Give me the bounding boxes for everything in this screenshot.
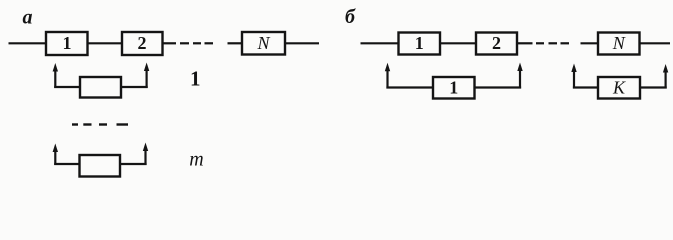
block 1 (series chain a) [46, 32, 88, 55]
wire: dashes to block N (b) [581, 42, 600, 44]
block: reserve unit row 1 (a, unlabeled) [80, 77, 121, 98]
arrow: reserve group 1 left (a) [53, 63, 58, 88]
wire: dashes to block N (a) [228, 42, 244, 44]
svg-text:N: N [612, 33, 626, 53]
wire: between block 1 and block 2 (a) [88, 42, 123, 44]
block N (series chain a) [242, 32, 285, 55]
wire: dashed row separator (a) [72, 123, 128, 125]
label: row index m (a) [189, 149, 203, 171]
arrow: reserve of group 1 left (b) [385, 63, 390, 89]
wire: block 2 to dashes (a) [163, 42, 177, 44]
svg-text:1: 1 [190, 67, 201, 91]
svg-text:N: N [256, 33, 270, 53]
svg-text:б: б [345, 6, 356, 28]
block N (series chain b) [598, 33, 640, 55]
block 1 (series chain b) [399, 33, 441, 55]
wire: between block 1 and block 2 (b) [440, 42, 477, 44]
wire: block 2 to dashes (b) [517, 42, 533, 44]
wire: right diagram input [361, 42, 400, 44]
wire: stub left of reserve box K (b) [573, 86, 599, 88]
label b (diagram b) [345, 6, 356, 28]
svg-text:2: 2 [138, 33, 147, 53]
block 2 (series chain b) [476, 33, 517, 55]
label a (diagram a) [23, 7, 33, 29]
wire: left diagram output [285, 42, 319, 44]
arrow: reserve of group K right (b) [663, 64, 668, 89]
svg-text:1: 1 [415, 33, 424, 53]
wire: dashed continuation (b) [536, 42, 569, 44]
wire: stub left of reserve box m (a) [54, 163, 80, 165]
arrow: reserve group m left (a) [53, 144, 58, 166]
svg-text:2: 2 [492, 33, 501, 53]
svg-text:m: m [189, 149, 203, 171]
svg-text:1: 1 [449, 78, 458, 98]
wire: stub right of reserve box m (a) [120, 163, 147, 165]
wire: dashed continuation (a) [180, 42, 213, 44]
arrow: reserve group 1 right (a) [144, 63, 149, 89]
svg-text:K: K [612, 78, 626, 98]
svg-text:а: а [23, 7, 33, 29]
wire: stub left of reserve box 1 (a) [54, 86, 80, 88]
block: reserve unit 1 (b) [433, 77, 475, 99]
block: reserve unit K (b) [598, 77, 640, 99]
svg-text:1: 1 [63, 33, 72, 53]
wire: right diagram output [640, 42, 671, 44]
wire: stub right of reserve box 1 (b) [475, 86, 522, 88]
wire: left diagram input [9, 42, 47, 44]
wire: stub right of reserve box 1 (a) [121, 86, 148, 88]
wire: stub right of reserve box K (b) [640, 86, 667, 88]
arrow: reserve of group K left (b) [571, 64, 576, 89]
wire: stub left of reserve box 1 (b) [386, 86, 434, 88]
label: row index 1 (a) [190, 67, 201, 91]
arrow: reserve of group 1 right (b) [517, 63, 522, 89]
block 2 (series chain a) [122, 32, 163, 55]
arrow: reserve group m right (a) [143, 143, 148, 166]
block: reserve unit row m (a, unlabeled) [80, 155, 121, 177]
